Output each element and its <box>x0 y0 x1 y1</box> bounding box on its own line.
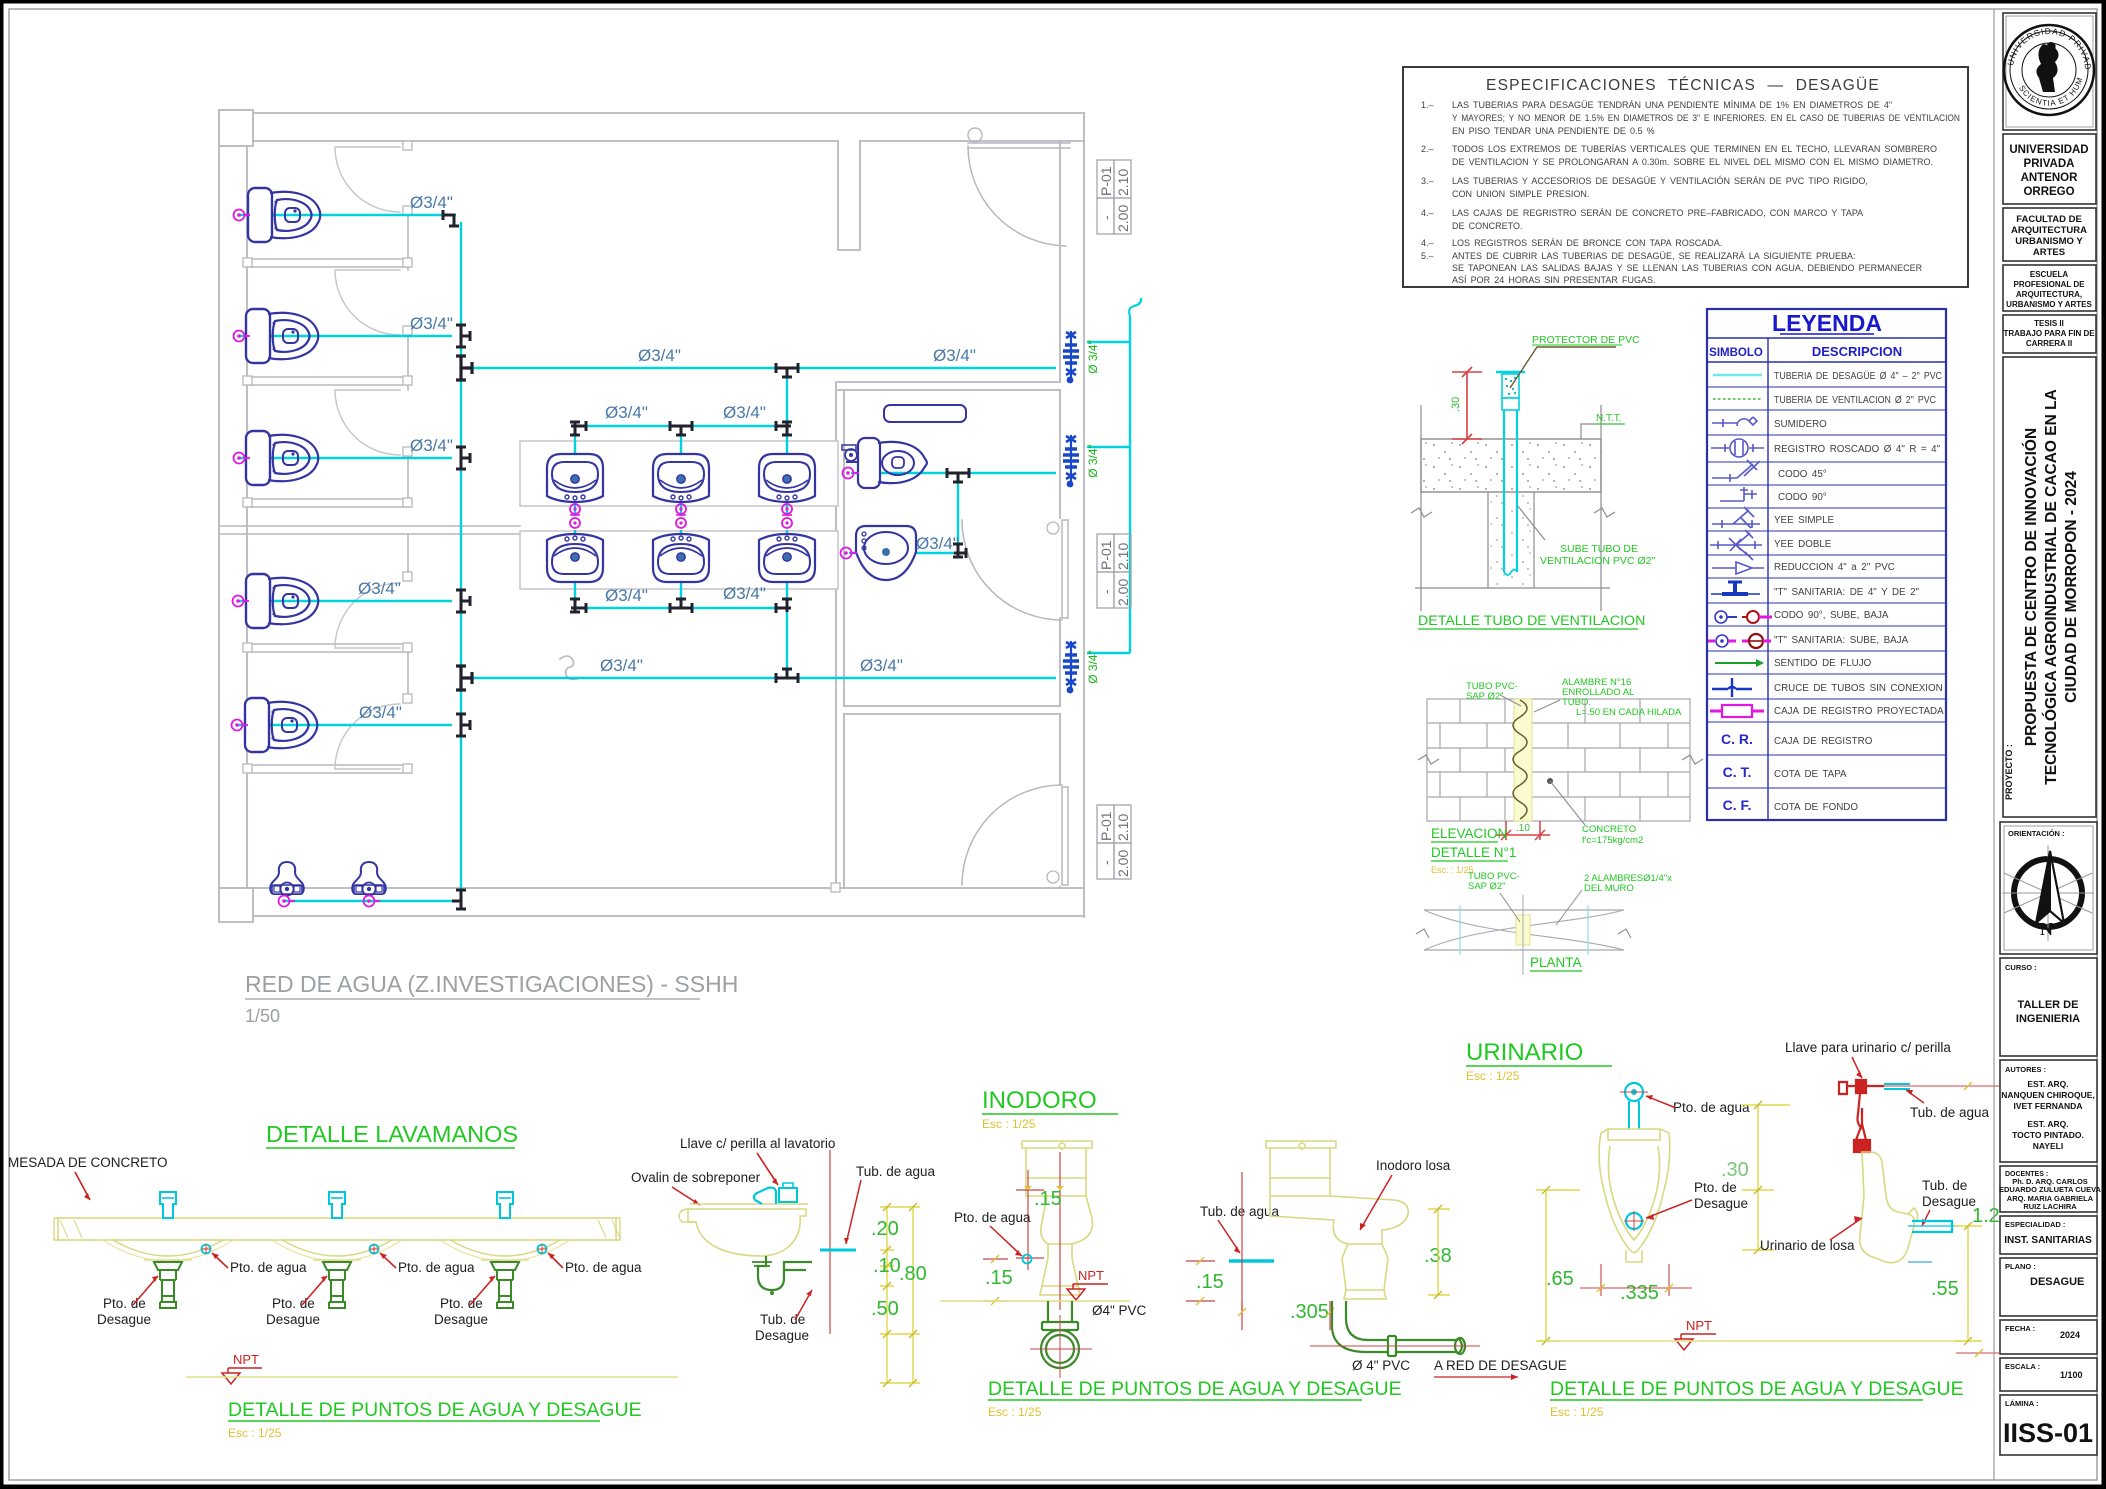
svg-text:1.–: 1.– <box>1421 100 1434 110</box>
svg-text:RUIZ LACHIRA: RUIZ LACHIRA <box>2023 1202 2077 1211</box>
svg-text:Ø3/4": Ø3/4" <box>916 534 959 553</box>
floor line <box>1546 1340 1967 1342</box>
box escala <box>2000 1358 2097 1391</box>
svg-text:ASÍ POR 24 HORAS SIN PRES: ASÍ POR 24 HORAS SIN PRESENTAR FUGAS. <box>1452 275 1655 285</box>
leader sube tubo <box>1517 505 1545 540</box>
svg-text:C. F.: C. F. <box>1723 797 1752 813</box>
wall mid separation <box>219 526 520 534</box>
faucet 2 <box>329 1192 345 1218</box>
wall stub top-right entry <box>838 141 860 250</box>
svg-text:SENTIDO DE FLUJO: SENTIDO DE FLUJO <box>1774 658 1872 669</box>
urinal side profile <box>1860 1152 1918 1263</box>
svg-text:ARTES: ARTES <box>2033 247 2065 258</box>
svg-text:Ø3/4": Ø3/4" <box>860 656 903 675</box>
svg-text:ESPECIFICACIONES TÉCNICAS —: ESPECIFICACIONES TÉCNICAS — DESAGÜE <box>1486 76 1880 94</box>
svg-text:Pto. de: Pto. de <box>1694 1180 1737 1195</box>
pipe toilet4 branch <box>238 600 452 602</box>
svg-text:LAS TUBERIAS PARA DESAGÜE: LAS TUBERIAS PARA DESAGÜE TENDRÁN UNA PE… <box>1452 100 1892 110</box>
svg-text:MESADA DE CONCRETO: MESADA DE CONCRETO <box>8 1155 168 1170</box>
svg-text:DETALLE DE PUNTOS DE AGUA Y DE: DETALLE DE PUNTOS DE AGUA Y DESAGUE <box>228 1399 642 1421</box>
svg-text:Ø 4" PVC: Ø 4" PVC <box>1352 1358 1410 1373</box>
pipe tee at toilet3 branch <box>456 447 470 469</box>
bidet right room <box>842 438 927 488</box>
svg-text:.15: .15 <box>1034 1188 1062 1210</box>
svg-text:NAYELI: NAYELI <box>2033 1141 2063 1151</box>
door right-bottom leaf+arc <box>962 785 1068 885</box>
pipe diameter labels blue <box>358 193 976 722</box>
pipe tee lower header S6 <box>776 599 792 613</box>
pipe main1 <box>470 367 1056 369</box>
svg-text:IVET FERNANDA: IVET FERNANDA <box>2014 1101 2083 1111</box>
svg-text:TOCTO PINTADO.: TOCTO PINTADO. <box>2012 1130 2084 1140</box>
magenta node toilet3 <box>234 453 251 464</box>
sink S1 upper <box>547 454 603 502</box>
svg-text:Desague: Desague <box>1922 1194 1976 1209</box>
pipe sink feed drop <box>786 368 788 426</box>
faucet 1 <box>160 1192 176 1218</box>
svg-text:ANTES DE CUBRIR LAS TUBERI: ANTES DE CUBRIR LAS TUBERIAS DE DESAGÜE,… <box>1452 251 1856 261</box>
svg-text:4.–: 4.– <box>1421 238 1434 248</box>
wall bottom (double line) <box>219 888 1084 916</box>
svg-text:INGENIERIA: INGENIERIA <box>2016 1013 2080 1025</box>
svg-text:.10: .10 <box>1516 823 1530 834</box>
pipe tee upper header S2 <box>670 421 692 435</box>
pipe tee trunk to main1 <box>456 356 472 380</box>
magenta node toilet1 <box>234 210 251 221</box>
sym yee simple <box>1712 507 1760 528</box>
green valve labels rotated <box>1086 340 1100 684</box>
legend outer frame <box>1707 309 1946 820</box>
pipe tee at toilet2 branch <box>456 325 470 347</box>
magenta riser pair sink2 <box>676 504 686 514</box>
leader protector de pvc <box>1510 347 1616 388</box>
svg-text:Tub. de: Tub. de <box>1922 1178 1967 1193</box>
svg-text:TODOS LOS EXTREMOS DE TUBE: TODOS LOS EXTREMOS DE TUBERÍAS VERTICALE… <box>1452 144 1937 154</box>
wall right (double line with door gaps) <box>1060 113 1084 917</box>
sym yee doble <box>1710 530 1762 560</box>
pipe outside branch main2 <box>1087 652 1130 654</box>
svg-text:PLANTA: PLANTA <box>1530 955 1582 970</box>
svg-text:PROPUESTA DE CENTRO DE INNOVAC: PROPUESTA DE CENTRO DE INNOVACIÓN <box>2022 428 2040 746</box>
toilet WC3 <box>246 431 318 485</box>
svg-text:CAJA DE REGISTRO PROYECTADA: CAJA DE REGISTRO PROYECTADA <box>1774 706 1944 717</box>
svg-text:DESAGUE: DESAGUE <box>2030 1276 2084 1288</box>
svg-text:Desague: Desague <box>97 1312 151 1327</box>
pipe outside riser vertical <box>1129 316 1131 653</box>
svg-text:INST. SANITARIAS: INST. SANITARIAS <box>2004 1235 2092 1246</box>
svg-text:NPT: NPT <box>1078 1268 1104 1283</box>
svg-text:PROYECTO :: PROYECTO : <box>2004 744 2014 800</box>
floor line yellow <box>940 1300 1130 1302</box>
svg-text:Ø 3/4": Ø 3/4" <box>1086 650 1100 684</box>
svg-text:2.00: 2.00 <box>1115 205 1131 232</box>
svg-text:DEL MURO: DEL MURO <box>1584 883 1634 894</box>
svg-text:Esc : 1/25: Esc : 1/25 <box>1550 1405 1604 1419</box>
door label box mid <box>1097 534 1131 608</box>
svg-text:LAS CAJAS DE REGRISTRO SER: LAS CAJAS DE REGRISTRO SERÁN DE CONCRETO… <box>1452 208 1863 218</box>
magenta node toilet2 <box>234 331 251 342</box>
sink counter lower <box>520 531 838 589</box>
red centerline vertical <box>1241 1172 1243 1310</box>
magenta riser pair sink3 <box>782 504 792 514</box>
svg-text:2.–: 2.– <box>1421 144 1434 154</box>
stall front partition upper <box>407 215 409 499</box>
door posts small squares <box>243 141 840 892</box>
door label box top <box>1097 160 1131 234</box>
compass north arrow <box>2002 845 2094 941</box>
svg-text:Ø3/4": Ø3/4" <box>933 346 976 365</box>
svg-text:CODO 90°, SUBE, BAJA: CODO 90°, SUBE, BAJA <box>1774 610 1889 621</box>
legend row separators <box>1707 387 1946 788</box>
svg-text:2.10: 2.10 <box>1115 543 1131 570</box>
svg-text:Desague: Desague <box>434 1312 488 1327</box>
svg-text:1/100: 1/100 <box>2060 1370 2083 1380</box>
svg-text:SE TAPONEAN LAS SALIDAS BA: SE TAPONEAN LAS SALIDAS BAJAS Y SE LLENA… <box>1452 263 1923 273</box>
svg-text:COTA DE FONDO: COTA DE FONDO <box>1774 802 1858 813</box>
urinal U2 <box>352 862 385 896</box>
wall plan band <box>1424 910 1624 950</box>
pipe elbow trunk bottom <box>452 890 466 909</box>
svg-text:RED DE AGUA (Z.INVESTIGACIONES: RED DE AGUA (Z.INVESTIGACIONES) - SSHH <box>245 971 738 997</box>
p-trap green <box>758 1256 812 1290</box>
svg-text:URINARIO: URINARIO <box>1466 1039 1583 1066</box>
wall top (double line) <box>219 113 1084 141</box>
NTT step <box>1581 424 1624 439</box>
stall wall 2 <box>247 377 410 385</box>
stall wall 5 <box>247 765 410 773</box>
legend descriptions <box>1774 371 1944 813</box>
svg-text:Y MAYORES; Y NO MENOR DE: Y MAYORES; Y NO MENOR DE 1.5% EN DIAMETR… <box>1452 113 1960 123</box>
svg-text:"T" SANITARIA: SUBE, BAJA: "T" SANITARIA: SUBE, BAJA <box>1774 635 1909 646</box>
pipe toilet5 branch <box>237 724 452 726</box>
flush valve red <box>1839 1080 1884 1152</box>
pipe tee lower header S4 <box>570 599 586 613</box>
pipe circle center <box>1516 915 1530 945</box>
box plano <box>2000 1258 2097 1316</box>
svg-text:3.–: 3.– <box>1421 176 1434 186</box>
svg-text:Esc : 1/25: Esc : 1/25 <box>1466 1069 1520 1083</box>
toilet WC1 <box>248 188 320 242</box>
svg-text:ESCALA :: ESCALA : <box>2005 1362 2040 1371</box>
svg-text:UNIVERSIDAD: UNIVERSIDAD <box>2009 144 2088 156</box>
pipe upper sink header <box>575 425 787 427</box>
svg-text:Ø3/4": Ø3/4" <box>638 346 681 365</box>
svg-text:.15: .15 <box>985 1267 1013 1289</box>
box escuela <box>2003 265 2096 311</box>
svg-text:Ø3/4": Ø3/4" <box>723 403 766 422</box>
box logo <box>2003 13 2096 130</box>
svg-text:Ø3/4": Ø3/4" <box>600 656 643 675</box>
sym sentido de flujo <box>1715 659 1764 667</box>
door right-mid leaf+arc <box>962 520 1068 620</box>
svg-text:Ø3/4": Ø3/4" <box>410 314 453 333</box>
magenta node toilet4 <box>233 596 250 607</box>
red centerlines <box>1028 1152 1060 1310</box>
sym codo 45 <box>1712 460 1760 482</box>
svg-text:ANTENOR: ANTENOR <box>2021 172 2079 184</box>
svg-text:CARRERA II: CARRERA II <box>2026 339 2072 348</box>
pipe toilet2 branch <box>239 335 452 337</box>
svg-text:1/50: 1/50 <box>245 1006 280 1026</box>
svg-text:Ø3/4": Ø3/4" <box>359 703 402 722</box>
sym tuberia ventilacion <box>1713 398 1762 400</box>
sym T sanitaria sube baja <box>1708 634 1771 648</box>
lavatory bowl side view <box>688 1209 806 1256</box>
drain elbow green <box>1332 1301 1465 1356</box>
sink S4 lower (mirrored) <box>547 534 603 582</box>
entry door top-right leaf+arc <box>968 143 1070 246</box>
svg-text:2.00: 2.00 <box>1115 850 1131 877</box>
red dimension .30 <box>1452 372 1482 439</box>
wire coil <box>1513 700 1527 819</box>
svg-text:.30: .30 <box>1450 397 1462 412</box>
toilet WC2 <box>246 309 318 363</box>
sym caja registro proyectada <box>1710 705 1764 717</box>
column top-left <box>219 110 253 146</box>
svg-text:Pto. de agua: Pto. de agua <box>398 1260 475 1275</box>
svg-text:.50: .50 <box>871 1298 899 1320</box>
svg-text:FACULTAD DE: FACULTAD DE <box>2016 214 2082 225</box>
stall wall 3 <box>247 499 410 507</box>
svg-text:Esc : 1/25: Esc : 1/25 <box>228 1426 282 1440</box>
svg-text:CONCRETO: CONCRETO <box>1582 824 1636 835</box>
svg-text:-: - <box>1098 589 1114 594</box>
pipe tee main2 sink feed <box>776 669 798 683</box>
pipe breakline squiggle <box>1129 298 1141 316</box>
svg-text:f'c=175kg/cm2: f'c=175kg/cm2 <box>1582 835 1643 846</box>
svg-text:DESCRIPCION: DESCRIPCION <box>1812 344 1902 359</box>
magenta node toilet5 <box>232 720 249 731</box>
svg-text:Pto. de agua: Pto. de agua <box>230 1260 307 1275</box>
svg-text:.335: .335 <box>1620 1282 1659 1304</box>
svg-text:DE CONCRETO.: DE CONCRETO. <box>1452 221 1522 231</box>
svg-text:Desague: Desague <box>1694 1196 1748 1211</box>
wall bidet room bottom <box>844 706 1060 714</box>
sym registro roscado <box>1711 439 1764 457</box>
pto de desague <box>1626 1213 1642 1229</box>
svg-text:REDUCCION 4" a 2" PVC: REDUCCION 4" a 2" PVC <box>1774 562 1895 573</box>
concrete counter elevation <box>58 1218 616 1240</box>
svg-text:P-01: P-01 <box>1098 811 1114 841</box>
svg-text:2.10: 2.10 <box>1115 169 1131 196</box>
toilet WC4 <box>246 574 318 628</box>
svg-text:SUBE TUBO DE: SUBE TUBO DE <box>1560 543 1638 555</box>
svg-text:DETALLE DE PUNTOS DE AGUA Y DE: DETALLE DE PUNTOS DE AGUA Y DESAGUE <box>1550 1378 1964 1400</box>
pipe bidet sink branch <box>849 552 958 554</box>
svg-text:Ø3/4": Ø3/4" <box>723 584 766 603</box>
sink S3 upper <box>759 454 815 502</box>
svg-text:.80: .80 <box>899 1263 927 1285</box>
svg-text:ESCUELA: ESCUELA <box>2030 270 2068 279</box>
svg-text:2024: 2024 <box>2060 1330 2080 1340</box>
svg-text:.65: .65 <box>1546 1268 1574 1290</box>
svg-text:"T" SANITARIA: DE 4" Y D: "T" SANITARIA: DE 4" Y DE 2" <box>1774 587 1920 598</box>
svg-text:-: - <box>1098 215 1114 220</box>
box curso <box>2000 958 2097 1056</box>
cyan supply <box>1625 1083 1643 1101</box>
svg-text:Esc : 1/25: Esc : 1/25 <box>982 1117 1036 1131</box>
pto de desague labels <box>97 1296 488 1327</box>
svg-text:REGISTRO ROSCADO Ø 4": REGISTRO ROSCADO Ø 4" R = 4" <box>1774 444 1941 455</box>
stall door 3 leaf+arc <box>335 390 400 455</box>
svg-text:.55: .55 <box>1931 1278 1959 1300</box>
svg-text:.305: .305 <box>1290 1301 1329 1323</box>
urinal front view <box>1599 1129 1670 1262</box>
pipe sink drops upper <box>575 426 787 516</box>
svg-text:1.2: 1.2 <box>1972 1205 2000 1227</box>
valve bidet at wall <box>1063 435 1079 487</box>
pto de agua markers cyan <box>202 1245 547 1254</box>
stall wall 4 <box>247 644 410 652</box>
university seal <box>2004 25 2094 115</box>
pipe tee bidet riser top <box>947 468 969 482</box>
pipe outside branch main1 <box>1087 341 1130 343</box>
pipe bidet riser <box>957 473 959 553</box>
pipe lower sink header <box>575 607 787 609</box>
sink S6 lower (mirrored) <box>759 534 815 582</box>
faucet 3 <box>497 1192 513 1218</box>
mirror bidet room <box>884 405 966 422</box>
sym cruce <box>1712 678 1752 697</box>
svg-text:ORREGO: ORREGO <box>2023 186 2074 198</box>
svg-text:PLANO :: PLANO : <box>2005 1262 2036 1271</box>
magenta node bidet <box>843 468 860 479</box>
svg-text:CODO 45°: CODO 45° <box>1778 469 1827 480</box>
sym sumidero <box>1712 417 1757 427</box>
svg-text:PROTECTOR DE PVC: PROTECTOR DE PVC <box>1532 334 1640 346</box>
svg-text:P-01: P-01 <box>1098 166 1114 196</box>
svg-text:INODORO: INODORO <box>982 1087 1097 1114</box>
concrete dot leader <box>1547 778 1553 784</box>
drain trap 2 <box>313 1260 361 1308</box>
svg-text:Ovalin de sobreponer: Ovalin de sobreponer <box>631 1170 761 1185</box>
svg-text:NPT: NPT <box>233 1352 259 1367</box>
sym T sanitaria <box>1711 582 1760 594</box>
floor line <box>186 1376 678 1378</box>
pipe tee trunk to main2 <box>456 666 472 690</box>
pipe tee at toilet4 branch <box>456 590 470 612</box>
svg-text:YEE DOBLE: YEE DOBLE <box>1774 539 1832 550</box>
svg-text:.15: .15 <box>1196 1271 1224 1293</box>
svg-text:CURSO :: CURSO : <box>2005 963 2037 972</box>
svg-text:ARQUITECTURA: ARQUITECTURA <box>2011 225 2087 236</box>
pipe trunk vertical <box>460 222 462 896</box>
box lamina <box>2000 1395 2097 1455</box>
svg-text:TRABAJO PARA FIN DE: TRABAJO PARA FIN DE <box>2003 329 2095 338</box>
svg-text:TUBERIA DE DESAGÜE Ø 4": TUBERIA DE DESAGÜE Ø 4" – 2" PVC <box>1774 371 1942 382</box>
svg-text:COTA DE TAPA: COTA DE TAPA <box>1774 769 1847 780</box>
svg-text:CIUDAD DE MORROPON - 2024: CIUDAD DE MORROPON - 2024 <box>2063 471 2080 703</box>
small cyan tick below <box>1908 1261 1932 1263</box>
wall left (double line) <box>219 110 247 917</box>
pipe main2 <box>470 677 1056 679</box>
svg-text:TALLER DE: TALLER DE <box>2018 999 2079 1011</box>
sink S2 upper <box>653 454 709 502</box>
pipe lower feed drop <box>786 608 788 678</box>
box fecha <box>2000 1320 2097 1354</box>
svg-text:CRUCE DE TUBOS SIN CONEXIO: CRUCE DE TUBOS SIN CONEXION <box>1774 683 1943 694</box>
svg-text:A RED DE DESAGUE: A RED DE DESAGUE <box>1434 1358 1567 1373</box>
wall bidet room top <box>838 382 1060 390</box>
valve main1 at wall <box>1063 331 1079 383</box>
svg-text:Llave c/ perilla al lavatorio: Llave c/ perilla al lavatorio <box>680 1136 835 1151</box>
sink S5 lower (mirrored) <box>653 534 709 582</box>
magenta node urinal1 <box>279 896 296 907</box>
wall vertical divider right rooms <box>836 382 844 888</box>
pipe toilet3 branch <box>239 457 452 459</box>
stall front partition lower <box>407 534 409 701</box>
svg-text:Desague: Desague <box>755 1328 809 1343</box>
sym reduccion <box>1712 562 1764 574</box>
box especialidad <box>2000 1216 2097 1254</box>
svg-text:N: N <box>2040 919 2053 939</box>
pipe elbow bidet sink <box>953 544 966 558</box>
pipe urinals bottom <box>284 900 452 902</box>
svg-text:Ø3/4": Ø3/4" <box>410 193 453 212</box>
slab band <box>1421 439 1601 492</box>
svg-text:Ø3/4": Ø3/4" <box>605 403 648 422</box>
svg-text:4.–: 4.– <box>1421 208 1434 218</box>
svg-text:PRIVADA: PRIVADA <box>2024 158 2075 170</box>
pipe tee main1 sink feed <box>776 363 798 377</box>
svg-text:NANQUEN CHIROQUE,: NANQUEN CHIROQUE, <box>2001 1090 2095 1100</box>
column bottom-left <box>219 888 253 922</box>
svg-text:PROFESIONAL DE: PROFESIONAL DE <box>2014 280 2086 289</box>
svg-text:L=.50 EN CADA HILADA: L=.50 EN CADA HILADA <box>1576 707 1682 718</box>
svg-text:DETALLE N°1: DETALLE N°1 <box>1431 845 1516 860</box>
svg-text:AUTORES :: AUTORES : <box>2005 1065 2046 1074</box>
svg-text:ORIENTACIÓN :: ORIENTACIÓN : <box>2008 829 2065 838</box>
svg-text:FECHA :: FECHA : <box>2005 1324 2035 1333</box>
drain pipe below <box>1041 1301 1079 1368</box>
svg-text:IISS-01: IISS-01 <box>2003 1418 2093 1448</box>
svg-text:SAP Ø2": SAP Ø2" <box>1466 691 1504 702</box>
drain trap 1 <box>144 1260 192 1308</box>
gray drain squiggle <box>560 656 580 679</box>
spec box frame <box>1403 67 1968 287</box>
valve main2 at wall <box>1063 641 1079 693</box>
pipe tee upper header S3 <box>776 421 792 435</box>
svg-text:EST. ARQ.: EST. ARQ. <box>2027 1119 2068 1129</box>
basins under counter <box>113 1240 560 1256</box>
sym tuberia desague <box>1713 374 1762 376</box>
svg-text:Tub. de agua: Tub. de agua <box>856 1164 936 1179</box>
svg-text:.30: .30 <box>1721 1159 1749 1181</box>
red dim .10 <box>1496 821 1550 840</box>
svg-text:Pto. de agua: Pto. de agua <box>565 1260 642 1275</box>
svg-text:TUBERIA DE VENTILACION Ø: TUBERIA DE VENTILACION Ø 2" PVC <box>1774 395 1936 406</box>
break marks <box>1418 755 1703 764</box>
svg-text:Ø4" PVC: Ø4" PVC <box>1092 1303 1147 1318</box>
svg-text:VENTILACION PVC Ø2": VENTILACION PVC Ø2" <box>1540 555 1655 567</box>
lavatory bidet room <box>856 526 916 580</box>
svg-text:Ø3/4": Ø3/4" <box>358 579 401 598</box>
svg-text:DETALLE TUBO DE VENTILACION: DETALLE TUBO DE VENTILACION <box>1418 613 1645 629</box>
svg-text:TESIS II: TESIS II <box>2034 319 2064 328</box>
pipe tee at toilet5 branch <box>456 714 470 736</box>
svg-text:C. T.: C. T. <box>1723 764 1752 780</box>
section edge lines <box>1421 405 1601 611</box>
red centerline <box>829 1150 831 1334</box>
magenta node urinal2 <box>364 896 381 907</box>
faucet cyan <box>754 1188 776 1204</box>
svg-text:CON UNION SIMPLE PRESION.: CON UNION SIMPLE PRESION. <box>1452 189 1589 199</box>
stall door 1 leaf+arc <box>335 147 400 212</box>
yellow dims <box>887 1207 913 1383</box>
svg-text:LÁMINA :: LÁMINA : <box>2005 1399 2038 1408</box>
svg-text:CODO 90°: CODO 90° <box>1778 492 1827 503</box>
pipe outside branch bidet <box>1087 446 1130 448</box>
